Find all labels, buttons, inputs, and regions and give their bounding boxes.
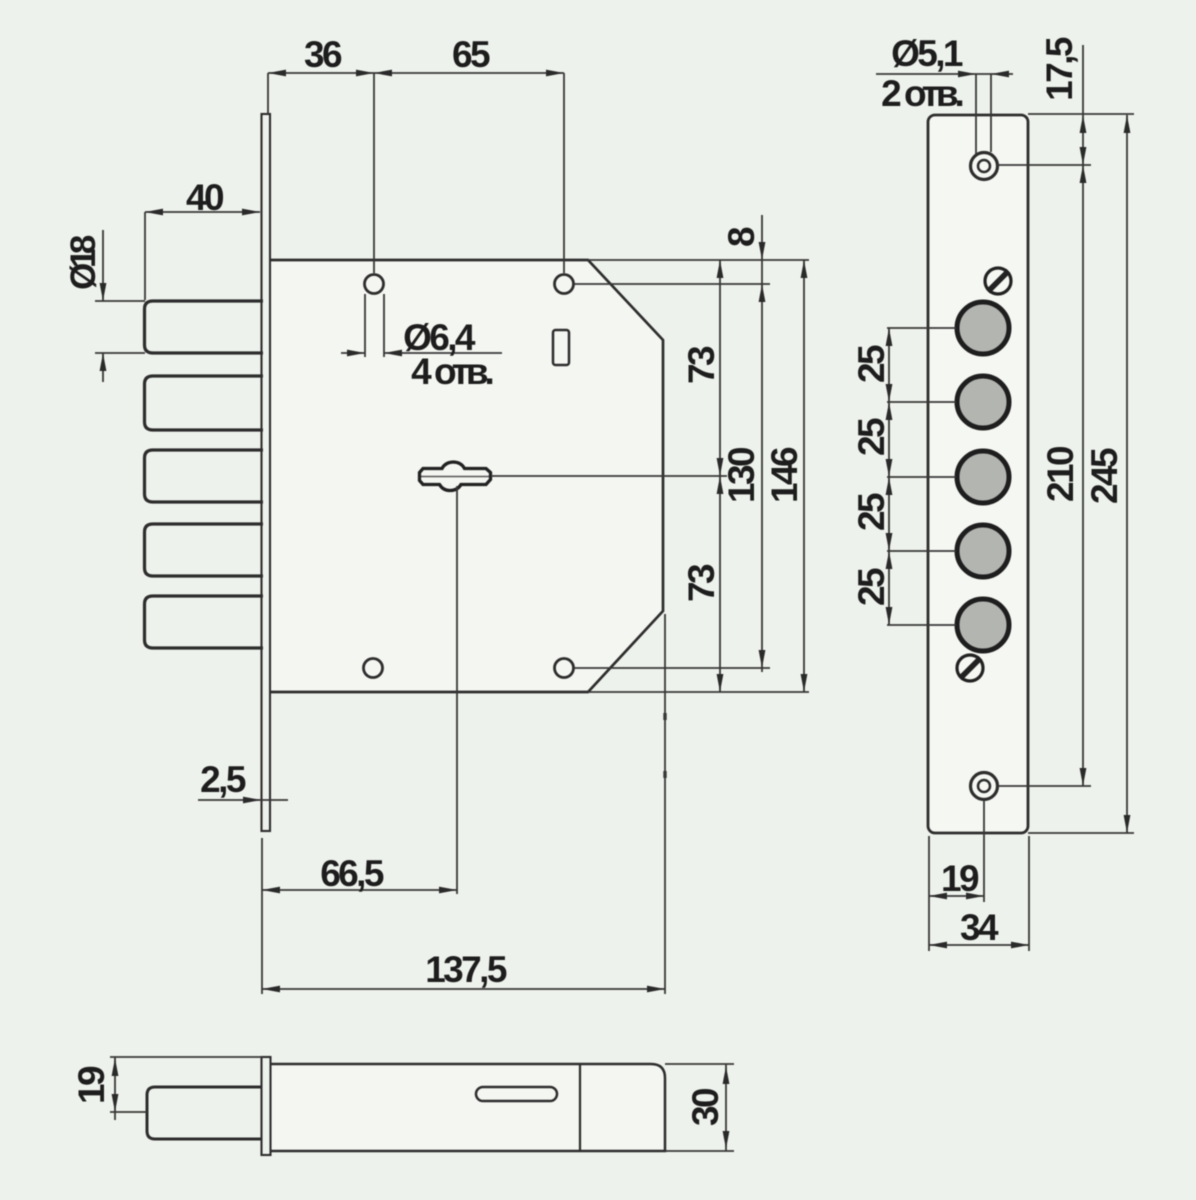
svg-text:17,5: 17,5 [1039, 37, 1080, 101]
svg-text:19: 19 [71, 1066, 112, 1104]
svg-text:19: 19 [941, 858, 979, 899]
svg-text:34: 34 [960, 907, 999, 948]
svg-text:73: 73 [681, 564, 722, 602]
svg-text:130: 130 [721, 447, 762, 503]
svg-text:65: 65 [452, 34, 490, 75]
svg-text:146: 146 [764, 447, 805, 503]
svg-text:36: 36 [304, 34, 342, 75]
svg-text:245: 245 [1084, 448, 1125, 504]
svg-text:4 отв.: 4 отв. [411, 351, 492, 392]
svg-text:2 отв.: 2 отв. [881, 73, 962, 114]
svg-text:210: 210 [1040, 446, 1081, 502]
svg-text:40: 40 [186, 177, 224, 218]
svg-text:25: 25 [851, 493, 892, 531]
svg-text:25: 25 [851, 345, 892, 383]
svg-text:30: 30 [685, 1088, 726, 1126]
svg-text:25: 25 [851, 568, 892, 606]
svg-text:66,5: 66,5 [320, 853, 384, 894]
svg-text:Ø18: Ø18 [64, 235, 103, 290]
svg-text:Ø5,1: Ø5,1 [891, 33, 963, 74]
svg-text:25: 25 [851, 418, 892, 456]
svg-text:8: 8 [721, 227, 762, 247]
svg-text:73: 73 [681, 346, 722, 384]
svg-text:2,5: 2,5 [200, 759, 246, 800]
svg-text:137,5: 137,5 [425, 949, 507, 990]
